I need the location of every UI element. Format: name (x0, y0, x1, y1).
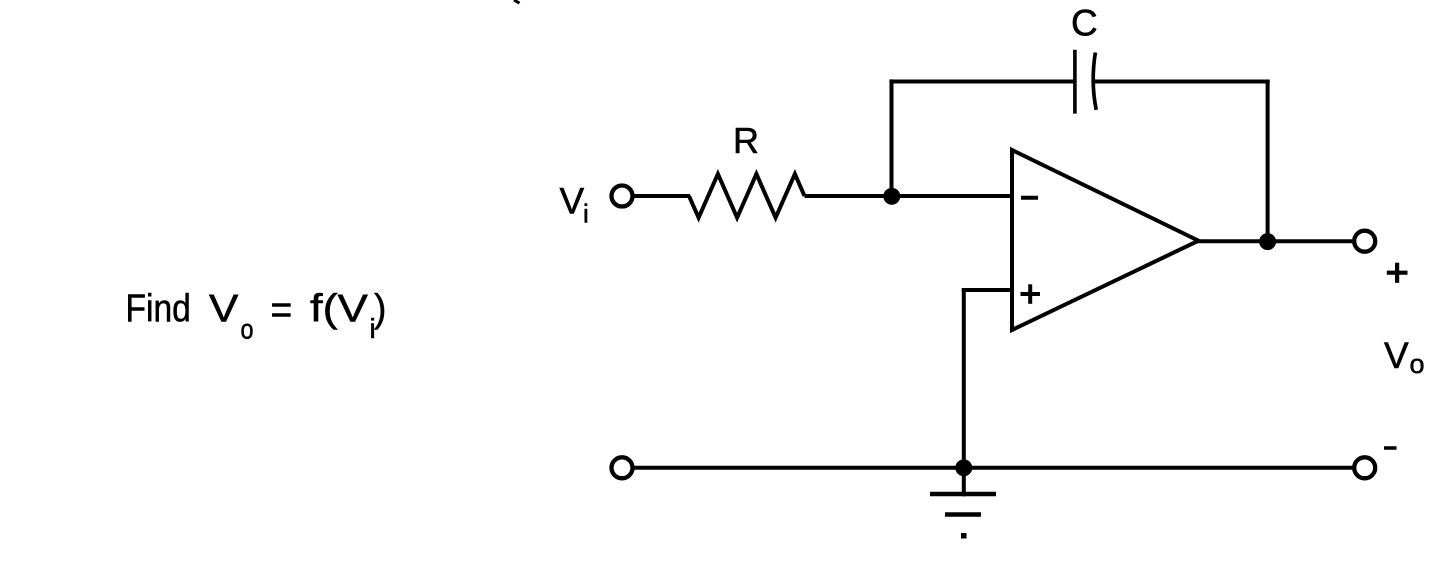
junction dot at output node (1259, 233, 1276, 250)
capacitor C right curved plate (1093, 53, 1096, 110)
op-amp plus sign (non-inverting input) (1021, 292, 1041, 296)
bottom-right terminal Vo- (open circle) (1354, 457, 1375, 478)
wire: input terminal to resistor (634, 194, 690, 198)
label - (output polarity) (1384, 446, 1397, 450)
ground bar 3 (dot) (961, 533, 967, 539)
wire: non-inverting input stub (962, 288, 1012, 292)
svg-text:Find: Find (126, 288, 191, 331)
junction dot at inverting input node (883, 188, 900, 205)
bottom rail wire (634, 466, 1352, 470)
wire: resistor to op-amp inverting input (through node) (805, 194, 1013, 198)
svg-text:=: = (271, 287, 293, 333)
stray tick mark top edge (514, 0, 520, 3)
svg-text:V: V (209, 288, 238, 331)
svg-text:o: o (241, 314, 254, 345)
svg-text:V: V (1384, 335, 1409, 376)
ground bar 1 (930, 492, 996, 497)
svg-text:i: i (583, 199, 589, 229)
input terminal Vi (open circle) (612, 186, 633, 207)
svg-text:): ) (374, 288, 386, 331)
wire: capacitor to right feedback corner (1095, 80, 1270, 84)
svg-text:R: R (733, 120, 759, 161)
wire: node up to feedback rail (890, 79, 894, 196)
ground bar 2 (945, 512, 981, 517)
svg-text:V: V (560, 181, 585, 222)
output terminal Vo+ (open circle) (1354, 231, 1375, 252)
wire: feedback rail left segment to capacitor (889, 80, 1075, 84)
wire: op-amp output to terminal (1197, 239, 1352, 243)
label + (output polarity) (1387, 271, 1408, 275)
bottom-left terminal (open circle) (612, 457, 633, 478)
op-amp U1 triangle (1012, 150, 1199, 330)
wire: non-inverting input down to ground rail (962, 288, 966, 468)
svg-text:C: C (1071, 3, 1098, 44)
capacitor C left plate (1073, 50, 1077, 114)
caption text: Find Vo = f(Vi) (126, 287, 387, 345)
junction dot at ground node (955, 459, 972, 476)
svg-text:f(V: f(V (310, 288, 368, 331)
wire: feedback down to output node (1266, 80, 1270, 242)
ground stub wire (962, 468, 966, 497)
svg-text:o: o (1410, 349, 1425, 379)
op-amp minus sign (inverting input) (1021, 196, 1038, 200)
resistor R (689, 174, 805, 218)
